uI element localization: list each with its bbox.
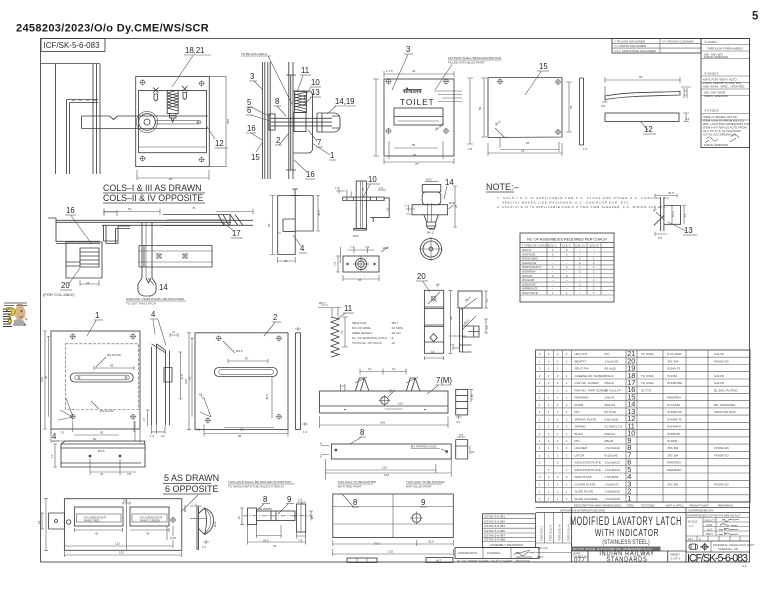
svg-text:1. COLS-I & II IS APPLICABLE F: 1. COLS-I & II IS APPLICABLE FOR A.C. CL… — [497, 196, 669, 200]
signature boxes — [455, 548, 539, 559]
svg-text:Ø32: Ø32 — [213, 521, 217, 527]
svg-text:WITH INDICATOR: WITH INDICATOR — [595, 526, 659, 538]
svg-text:LATCH: LATCH — [575, 454, 585, 458]
svg-text:PCT.DWG: PCT.DWG — [641, 503, 655, 507]
svg-text:Ø10: Ø10 — [383, 246, 389, 250]
svg-text:Ø7.5x19: Ø7.5x19 — [605, 410, 617, 414]
svg-text:2: 2 — [276, 136, 280, 145]
svg-text:1.6: 1.6 — [303, 430, 308, 434]
svg-text:15: 15 — [539, 62, 548, 71]
svg-text:14,19: 14,19 — [335, 97, 355, 106]
svg-text:: 22 SWG: : 22 SWG — [390, 326, 404, 330]
svg-text:11: 11 — [50, 455, 54, 458]
svg-text:9: 9 — [287, 495, 291, 504]
svg-text:COL-I: COL-I — [548, 243, 556, 247]
corner screws — [140, 79, 146, 85]
group row — [536, 512, 750, 514]
svg-text:NOTE:–: NOTE:– — [486, 182, 519, 192]
svg-text:SCALE: SCALE — [688, 520, 698, 524]
svg-text:0.8: 0.8 — [601, 104, 606, 108]
svg-text:SSE/D SWE/DRO: SSE/D SWE/DRO — [704, 55, 729, 59]
svg-text:GALVD: GALVD — [714, 374, 725, 378]
svg-text:16: 16 — [485, 325, 489, 329]
vertical latch bar — [138, 222, 156, 296]
svg-text:Ø6.7: Ø6.7 — [319, 301, 326, 305]
svg-text:Ø22x19: Ø22x19 — [605, 403, 616, 407]
dims above — [104, 209, 253, 215]
svg-text:42: 42 — [146, 532, 150, 536]
svg-text:5: 5 — [752, 11, 759, 23]
svg-text:PIN: PIN — [575, 410, 580, 414]
svg-text:85: 85 — [44, 375, 48, 379]
svg-text:FINISH-2D: FINISH-2D — [714, 482, 730, 486]
svg-text:65: 65 — [412, 143, 416, 147]
svg-text:CHENNAI - 38: CHENNAI - 38 — [718, 547, 738, 551]
cover plate inner — [139, 91, 207, 153]
svg-text:12/6/2021: 12/6/2021 — [487, 551, 501, 555]
svg-text:COLS–II & IV OPPOSITE: COLS–II & IV OPPOSITE — [103, 193, 203, 203]
svg-text:18: 18 — [37, 520, 41, 524]
handle bar — [82, 116, 209, 129]
svg-text:M3: M3 — [605, 352, 609, 356]
svg-text:HOLDER: HOLDER — [575, 446, 588, 450]
svg-text:FROM MS ROD: FROM MS ROD — [714, 410, 736, 414]
svg-text:-: - — [548, 461, 549, 465]
svg-text:ICF/SK-5-6-088: ICF/SK-5-6-088 — [484, 538, 505, 542]
svg-text:TO ICMA: TO ICMA — [641, 381, 653, 385]
svg-text:WITH RED PAINT: WITH RED PAINT — [337, 485, 361, 489]
svg-text:2.0: 2.0 — [456, 420, 461, 424]
svg-text:IS:549-73: IS:549-73 — [667, 367, 680, 371]
svg-text:2: 2 — [273, 313, 277, 322]
svg-text:16: 16 — [66, 206, 75, 215]
svg-text:▽▽ ROUGH CLEANED: ▽▽ ROUGH CLEANED — [662, 39, 694, 43]
svg-text:148: 148 — [380, 421, 385, 425]
svg-text:32.5: 32.5 — [428, 540, 434, 544]
svg-text:10.3: 10.3 — [671, 211, 675, 217]
svg-text:SUPERSEDES ICF/SK-5-6-083 AS A: SUPERSEDES ICF/SK-5-6-083 AS ALT- — [687, 514, 741, 518]
right extension over rail — [163, 215, 230, 226]
svg-text:132: 132 — [384, 473, 389, 477]
svg-text:IS:1361: IS:1361 — [667, 374, 678, 378]
svg-text:SURFACE 4.5MM Ø DRILL BE PROVI: SURFACE 4.5MM Ø DRILL BE PROVIDED — [126, 297, 185, 301]
svg-text:ICF/SK-5-6-083: ICF/SK-5-6-083 — [44, 41, 101, 50]
svg-text:83: 83 — [240, 428, 244, 432]
svg-text:COVER PLATE: COVER PLATE — [575, 482, 596, 486]
svg-text:Ø5: Ø5 — [310, 515, 314, 519]
svg-text:: 10: : 10 — [390, 341, 395, 345]
svg-text:60: 60 — [639, 75, 643, 79]
svg-text:1 OF 1: 1 OF 1 — [671, 557, 681, 561]
svg-text:3: 3 — [406, 45, 410, 54]
svg-text:SSE/D SWE/DRO: SSE/D SWE/DRO — [704, 143, 729, 147]
svg-text:1.6: 1.6 — [150, 434, 155, 438]
svg-text:7.4: 7.4 — [365, 245, 370, 249]
svg-text:IS:548 DBL: IS:548 DBL — [667, 381, 683, 385]
svg-text:THIS HALF TO BE PAINTED: THIS HALF TO BE PAINTED — [406, 480, 446, 484]
svg-text:24: 24 — [100, 472, 104, 476]
svg-text:CKD: CKD — [706, 523, 713, 527]
logo row — [686, 551, 750, 553]
svg-text:65: 65 — [526, 141, 530, 145]
qty vertical labels — [544, 513, 546, 544]
svg-text:1.5: 1.5 — [335, 186, 340, 190]
svg-text:Ø4.5: Ø4.5 — [98, 449, 105, 453]
revision history column — [701, 39, 751, 148]
svg-text:80: 80 — [93, 437, 97, 441]
svg-text:54: 54 — [273, 544, 277, 548]
svg-text:35.5: 35.5 — [317, 210, 321, 216]
svg-text:122: 122 — [382, 466, 387, 470]
svg-text:AND/DATE: AND/DATE — [515, 559, 530, 563]
svg-text:7: 7 — [317, 138, 321, 147]
svg-text:10: 10 — [161, 434, 165, 438]
svg-text:42: 42 — [95, 532, 99, 536]
svg-text:7(M): 7(M) — [436, 376, 452, 385]
spring screws — [153, 88, 159, 102]
svg-text:THROUGH FORM AMDEX: THROUGH FORM AMDEX — [707, 47, 743, 51]
svg-text:(STAINLESS STEEL): (STAINLESS STEEL) — [602, 540, 649, 547]
svg-text:SPECIAL MAKES LIKE RAJADHANI A: SPECIAL MAKES LIKE RAJADHANI A.C. CHAIRC… — [502, 201, 630, 205]
svg-text:18: 18 — [284, 259, 288, 263]
svg-text:COL-II: COL-II — [562, 243, 571, 247]
side section — [456, 389, 468, 415]
svg-text:DESCRIPTION AND DIMENSIONS: DESCRIPTION AND DIMENSIONS — [574, 503, 621, 507]
svg-text:83: 83 — [110, 364, 114, 368]
svg-text:P-31-2008: P-31-2008 — [667, 352, 681, 356]
svg-text:GROUP 5-B INTERIOR DECORS: GROUP 5-B INTERIOR DECORS — [560, 509, 605, 513]
svg-text:7.2: 7.2 — [196, 428, 201, 432]
svg-text:SIDE PLATE: SIDE PLATE — [575, 475, 592, 479]
svg-text:45: 45 — [358, 278, 362, 282]
svg-text:3.8: 3.8 — [123, 499, 128, 503]
ALT small row — [686, 540, 750, 542]
svg-text:7.5: 7.5 — [333, 261, 337, 266]
svg-text:FINISH-2D: FINISH-2D — [714, 359, 730, 363]
svg-text:COL-III: COL-III — [575, 243, 585, 247]
svg-text:FREE HEIGHT: FREE HEIGHT — [352, 331, 372, 335]
svg-text:DIA OF WIRE: DIA OF WIRE — [352, 326, 371, 330]
svg-text:3.8: 3.8 — [127, 472, 132, 476]
svg-text:1.6x80x100: 1.6x80x100 — [605, 490, 621, 494]
svg-text:1.6x65x75: 1.6x65x75 — [605, 482, 619, 486]
svg-text:81: 81 — [569, 105, 573, 109]
svg-text:PERSPEX: PERSPEX — [667, 468, 681, 472]
svg-text:BENFTT: BENFTT — [575, 359, 587, 363]
svg-text:PAINT GREEN: PAINT GREEN — [140, 519, 160, 523]
svg-text:7.45: 7.45 — [470, 394, 474, 400]
svg-text:19: 19 — [368, 367, 372, 371]
svg-text:1: 1 — [330, 151, 334, 160]
svg-text:FOR COL-III: FOR COL-III — [558, 524, 562, 541]
svg-text:FILLED WITH BLUE PAINT.: FILLED WITH BLUE PAINT. — [448, 61, 485, 65]
svg-text:66: 66 — [413, 153, 417, 157]
svg-text:ITEM: ITEM — [627, 503, 635, 507]
flat bar item 12 — [605, 113, 679, 122]
svg-text:M5x10: M5x10 — [605, 381, 614, 385]
svg-text:10: 10 — [368, 175, 377, 184]
right column — [685, 508, 687, 563]
svg-text:135: 135 — [388, 550, 393, 554]
svg-text:13: 13 — [311, 88, 320, 97]
svg-text:7.5: 7.5 — [60, 431, 65, 435]
svg-text:No. OF WORKING COILS: No. OF WORKING COILS — [352, 336, 387, 340]
svg-text:88: 88 — [238, 434, 242, 438]
svg-text:IS:4454-75: IS:4454-75 — [667, 417, 682, 421]
svg-text:WITH BLUE PAINT: WITH BLUE PAINT — [406, 485, 432, 489]
svg-text:24: 24 — [86, 281, 90, 285]
svg-text:(FOR COL-III&IV): (FOR COL-III&IV) — [43, 292, 75, 297]
svg-text:JSS 304: JSS 304 — [667, 446, 679, 450]
svg-text:Ø10: Ø10 — [449, 201, 455, 205]
svg-text:TO ICMA: TO ICMA — [641, 352, 653, 356]
svg-text:92.5: 92.5 — [374, 542, 380, 546]
svg-text:5 AS DRAWN: 5 AS DRAWN — [164, 473, 219, 483]
svg-text:73: 73 — [340, 330, 344, 334]
cover plate outer — [136, 77, 210, 167]
svg-text:Ø4.5xCSK: Ø4.5xCSK — [107, 353, 121, 357]
svg-text:PERSPEX: PERSPEX — [667, 396, 681, 400]
svg-text:10: 10 — [311, 78, 320, 87]
svg-text:LETTERS SHALL BE ENGRAVED AND: LETTERS SHALL BE ENGRAVED AND — [448, 56, 502, 60]
svg-text:IS:4454/IV: IS:4454/IV — [667, 425, 681, 429]
svg-text:5.8: 5.8 — [658, 236, 663, 240]
mounting plate strip — [288, 62, 290, 179]
handle slot — [156, 121, 202, 124]
svg-text:1.8: 1.8 — [468, 147, 473, 151]
svg-text:WACTWCE: WACTWCE — [522, 291, 538, 295]
svg-text:5.5: 5.5 — [459, 433, 464, 437]
svg-text:11: 11 — [301, 66, 309, 75]
svg-text:16: 16 — [683, 213, 687, 217]
svg-text:1: 1 — [627, 494, 631, 503]
bottom dim — [137, 170, 209, 180]
svg-text:8: 8 — [360, 428, 364, 437]
wall lines — [261, 62, 263, 179]
svg-text:Ø4.5xCSK: Ø4.5xCSK — [100, 409, 114, 413]
svg-text:PIN: PIN — [575, 439, 580, 443]
svg-text:JSS 304: JSS 304 — [667, 454, 679, 458]
svg-text:45.8: 45.8 — [265, 394, 269, 400]
svg-text:1.6x10x100: 1.6x10x100 — [605, 497, 621, 501]
svg-text:ALT: ALT — [436, 559, 441, 563]
svg-text:132: 132 — [119, 551, 124, 555]
svg-text:② 08/2013: ② 08/2013 — [704, 72, 719, 76]
svg-text:16: 16 — [247, 124, 256, 133]
svg-text:Ø5x24: Ø5x24 — [605, 439, 614, 443]
svg-text:12: 12 — [485, 298, 489, 302]
svg-text:3.20: 3.20 — [170, 536, 176, 540]
svg-text:ST 4.2x13-F: ST 4.2x13-F — [605, 388, 622, 392]
svg-text:ACTUL ACCORDINGLY): ACTUL ACCORDINGLY) — [703, 133, 736, 137]
item 2 thickness bar — [295, 327, 308, 434]
svg-text:14: 14 — [159, 283, 168, 292]
svg-text:BUSH: BUSH — [575, 432, 583, 436]
svg-text:FOR COL-I: FOR COL-I — [540, 526, 544, 541]
svg-text:25: 25 — [361, 187, 365, 191]
svg-text:1.4: 1.4 — [583, 147, 588, 151]
svg-text:40: 40 — [412, 69, 416, 73]
svg-text:15: 15 — [251, 153, 260, 162]
svg-text:Ø4.5: Ø4.5 — [236, 349, 243, 353]
svg-text:DEL/CT: DEL/CT — [705, 518, 716, 522]
svg-text:80: 80 — [169, 177, 173, 181]
svg-text:6 OPPOSITE: 6 OPPOSITE — [165, 484, 219, 494]
svg-text:8: 8 — [353, 498, 357, 507]
svg-text:4: 4 — [52, 432, 57, 441]
svg-text:M3 TAPPED HOLE: M3 TAPPED HOLE — [411, 445, 437, 449]
svg-text:M3x10: M3x10 — [605, 374, 614, 378]
svg-text:PERSPEX: PERSPEX — [575, 396, 589, 400]
svg-text:TOTAL No. OF COILS: TOTAL No. OF COILS — [352, 341, 382, 345]
finish symbols table top-right — [612, 39, 701, 54]
svg-text:ICF/SK-5-6-083: ICF/SK-5-6-083 — [687, 553, 748, 565]
svg-text:1: 1 — [95, 311, 99, 320]
svg-text:ALT: ALT — [707, 527, 712, 531]
svg-text:STANDARDS: STANDARDS — [607, 556, 648, 564]
svg-text:PAN HD. TAPP. SCREW: PAN HD. TAPP. SCREW — [575, 388, 608, 392]
svg-text:19: 19 — [392, 367, 396, 371]
svg-text:M3 Ø3256: M3 Ø3256 — [258, 507, 272, 511]
svg-text:1.6x16x25: 1.6x16x25 — [605, 359, 619, 363]
svg-text:COLS–I & III AS DRAWN: COLS–I & III AS DRAWN — [103, 183, 201, 193]
svg-text:22 SWG(.71): 22 SWG(.71) — [605, 425, 623, 429]
svg-text:HEX NUT: HEX NUT — [575, 352, 588, 356]
svg-text:12: 12 — [644, 125, 653, 134]
svg-text:▽▽ FINISH MACHINED: ▽▽ FINISH MACHINED — [614, 44, 647, 48]
svg-text:8: 8 — [263, 495, 267, 504]
svg-text:INDICATOR PLATE: INDICATOR PLATE — [575, 461, 601, 465]
svg-text:IS:4854-86: IS:4854-86 — [667, 410, 682, 414]
svg-text:2. COLS-III & IV IS APPLICABLE: 2. COLS-III & IV IS APPLICABLE FOR A.C T… — [497, 205, 667, 209]
svg-text:SLIDE PLATE: SLIDE PLATE — [575, 490, 594, 494]
svg-text:6: 6 — [247, 106, 251, 115]
svg-text:10: 10 — [471, 450, 475, 454]
svg-text:No OF UNDER GEAR: No OF UNDER GEAR — [457, 559, 488, 563]
svg-text:18,21: 18,21 — [185, 46, 205, 55]
shaft — [271, 118, 332, 126]
svg-text:11: 11 — [344, 304, 352, 313]
svg-text:20: 20 — [417, 272, 426, 281]
svg-text:DRN: DRN — [706, 532, 713, 536]
svg-text:SUPERSEDED BY-: SUPERSEDED BY- — [688, 509, 714, 513]
svg-text:122: 122 — [115, 542, 120, 546]
svg-text:Ø4.5: Ø4.5 — [427, 231, 434, 235]
svg-text:25: 25 — [454, 204, 458, 208]
svg-text:45.8: 45.8 — [668, 191, 674, 195]
svg-text:① A/2002: ① A/2002 — [704, 40, 717, 44]
svg-text:TO BE NON WELD: TO BE NON WELD — [241, 52, 268, 56]
svg-text:PAINT RED: PAINT RED — [84, 519, 101, 523]
svg-text:240x75: 240x75 — [605, 396, 615, 400]
side thin bar — [580, 78, 584, 145]
svg-text:FINISH-2D: FINISH-2D — [714, 446, 730, 450]
svg-text:70: 70 — [192, 206, 196, 210]
svg-text:4: 4 — [151, 310, 156, 319]
svg-text:15: 15 — [386, 207, 390, 211]
svg-text:No. OF ASSEMBLIES REQUIRED PER: No. OF ASSEMBLIES REQUIRED PER COACH — [527, 237, 607, 242]
svg-text:IS:7775: IS:7775 — [641, 388, 652, 392]
svg-text:▽ ROUGH MACHINED: ▽ ROUGH MACHINED — [614, 39, 646, 43]
svg-text:0.8x13x80: 0.8x13x80 — [605, 417, 619, 421]
section labels — [246, 66, 356, 179]
svg-text:: 20 mm: : 20 mm — [390, 331, 401, 335]
svg-text:IS:455-86: IS:455-86 — [667, 432, 680, 436]
svg-text:CHEESE HD. SCREW: CHEESE HD. SCREW — [575, 374, 606, 378]
svg-text:: 8: : 8 — [390, 336, 394, 340]
svg-text:FINISH-2D: FINISH-2D — [714, 454, 730, 458]
svg-text:▽▽▽ FINE FINISH MACHINED: ▽▽▽ FINE FINISH MACHINED — [614, 49, 657, 53]
svg-text:60: 60 — [128, 207, 132, 211]
svg-text:TO SUIT THIS LATCH: TO SUIT THIS LATCH — [126, 302, 156, 306]
svg-text:SSE/D SWE/DRO: SSE/D SWE/DRO — [704, 94, 729, 98]
svg-text:-: - — [566, 461, 567, 465]
svg-text:12: 12 — [215, 139, 224, 148]
svg-text:ICF/SK-5-6-084: ICF/SK-5-6-084 — [484, 524, 505, 528]
svg-text:ICF/SK-5-6-082: ICF/SK-5-6-082 — [484, 519, 505, 523]
svg-text:WEIGHT/UNIT: WEIGHT/UNIT — [689, 503, 709, 507]
svg-text:REMARKS: REMARKS — [718, 503, 733, 507]
keeper bracket right — [317, 113, 340, 132]
top rails — [48, 218, 253, 242]
spring housing — [294, 91, 313, 153]
svg-text:308: 308 — [226, 119, 230, 124]
svg-text:THIS HALF TO BE PAINTED: THIS HALF TO BE PAINTED — [337, 480, 377, 484]
svg-text:2458203/2023/O/o Dy.CME/WS/SCR: 2458203/2023/O/o Dy.CME/WS/SCR — [16, 23, 209, 35]
svg-text:18: 18 — [237, 516, 241, 520]
svg-text:74: 74 — [521, 149, 525, 153]
svg-text:11: 11 — [172, 330, 175, 334]
svg-text:③ 07/2015: ③ 07/2015 — [704, 109, 719, 113]
pivot circle — [139, 114, 156, 131]
svg-text:शौचालय: शौचालय — [403, 87, 422, 95]
svg-text:TO ICMA: TO ICMA — [641, 374, 653, 378]
wall edge line far left — [55, 64, 57, 174]
left guide block — [66, 242, 102, 278]
header row of parts table — [536, 501, 750, 503]
svg-text:7.5: 7.5 — [450, 343, 455, 347]
svg-text:JSS 304: JSS 304 — [667, 482, 679, 486]
svg-text:Ø1.6x20: Ø1.6x20 — [605, 367, 617, 371]
dims — [384, 71, 454, 77]
svg-text:8: 8 — [275, 97, 279, 106]
leaders right of text — [434, 91, 462, 102]
svg-text:A-1: A-1 — [742, 564, 747, 568]
svg-text:BL ZINC PLATED: BL ZINC PLATED — [714, 388, 739, 392]
svg-text:A: A — [699, 537, 701, 541]
svg-text:-: - — [539, 468, 540, 472]
z bracket — [104, 225, 131, 243]
svg-text:: Ø6.7: : Ø6.7 — [390, 321, 399, 325]
svg-text:GALVD: GALVD — [714, 352, 725, 356]
svg-text:TYPES OF COACH: TYPES OF COACH — [522, 243, 549, 247]
latch body horizontal — [139, 246, 212, 268]
svg-text:102: 102 — [398, 402, 403, 406]
svg-text:13: 13 — [686, 117, 690, 121]
svg-text:Ø22: Ø22 — [426, 178, 432, 182]
left wall panel — [67, 100, 99, 175]
svg-text:65: 65 — [100, 431, 104, 435]
svg-text:INDICATOR PLATE: INDICATOR PLATE — [575, 468, 601, 472]
svg-text:COL-IV: COL-IV — [589, 243, 599, 247]
svg-text:SPLIT PIN: SPLIT PIN — [575, 367, 589, 371]
svg-text:THIS HOLE SHALL BE DRILLED IN: THIS HOLE SHALL BE DRILLED IN POSITION — [228, 480, 291, 484]
svg-text:50: 50 — [267, 223, 271, 227]
svg-text:GALVD: GALVD — [714, 381, 725, 385]
svg-text:MEAN DIA: MEAN DIA — [352, 321, 367, 325]
svg-text:MAT & SPCL: MAT & SPCL — [666, 503, 684, 507]
hatched spring block — [295, 92, 307, 113]
